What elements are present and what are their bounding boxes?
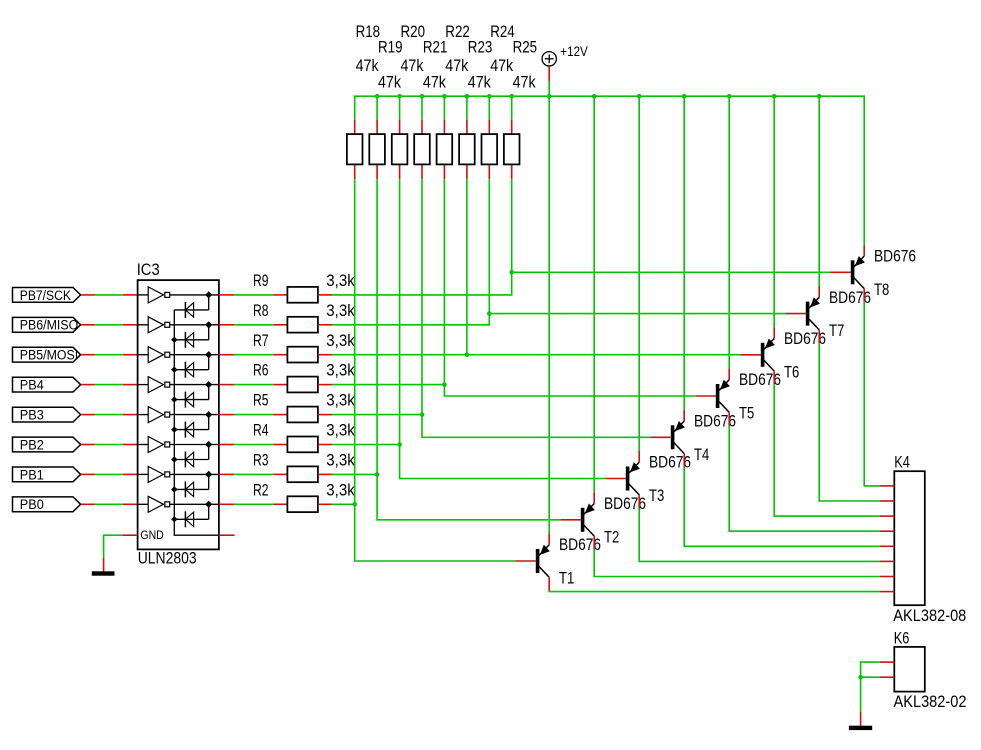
node PB7/SCK input flag [13, 288, 81, 303]
resistor R20 47k [392, 22, 425, 179]
IC3 buffer channel 8 [138, 496, 219, 512]
IC3 diode 8 [174, 504, 208, 527]
svg-text:K6: K6 [894, 628, 910, 647]
svg-text:47k: 47k [445, 56, 468, 75]
IC3 buffer channel 2 [138, 317, 219, 333]
IC3 GND pin [122, 528, 164, 542]
svg-text:PB0: PB0 [20, 497, 44, 512]
svg-text:PB1: PB1 [20, 467, 44, 482]
wire T7 collector to K4 pin 2 [819, 343, 880, 501]
wire PB4 to IC3 pin [81, 384, 138, 386]
svg-text:R21: R21 [423, 37, 448, 56]
svg-text:R24: R24 [490, 22, 515, 41]
svg-text:47k: 47k [378, 72, 401, 91]
wire IC3 output row R3 [219, 473, 273, 475]
wire base net channel T1 [332, 179, 516, 561]
wire base net channel T4 [332, 179, 651, 437]
transistor T3 BD676 [606, 451, 691, 508]
svg-text:3,3k: 3,3k [326, 331, 355, 350]
wire T2 collector to K4 pin 7 [594, 549, 880, 576]
transistor T5 BD676 [696, 368, 781, 425]
node PB1 input flag [13, 467, 81, 482]
svg-text:47k: 47k [356, 56, 379, 75]
wire IC3 output row R5 [219, 414, 273, 416]
IC3 COM pin stub [219, 534, 235, 536]
svg-text:3,3k: 3,3k [326, 480, 355, 499]
svg-text:47k: 47k [490, 56, 513, 75]
wire base net channel T3 [332, 179, 606, 478]
transistor T4 BD676 [651, 410, 736, 467]
transistor T7 BD676 [786, 286, 871, 343]
wire PB5/MOSI to IC3 pin [81, 354, 138, 356]
resistor R25 47k [504, 37, 537, 179]
resistor R24 47k [482, 22, 515, 179]
svg-text:AKL382-02: AKL382-02 [894, 692, 967, 711]
wire base net channel T5 [332, 179, 696, 396]
svg-text:T6: T6 [784, 362, 799, 381]
node PB0 input flag [13, 497, 81, 512]
svg-text:T5: T5 [739, 404, 754, 423]
IC3 diode 5 [174, 415, 208, 438]
svg-text:R18: R18 [356, 22, 381, 41]
svg-text:R6: R6 [253, 361, 269, 380]
ground (K6) [849, 726, 872, 730]
ground (IC3 GND) [92, 571, 115, 575]
svg-text:AKL382-08: AKL382-08 [893, 606, 966, 625]
IC3 diode 2 [174, 325, 208, 348]
svg-text:PB5/MOSI: PB5/MOSI [20, 348, 78, 363]
svg-text:3,3k: 3,3k [326, 361, 355, 380]
svg-text:R5: R5 [253, 391, 269, 410]
svg-text:IC3: IC3 [137, 260, 160, 279]
wire base net channel T6 [332, 179, 741, 357]
wire IC3 output row R8 [219, 324, 273, 326]
connector K4 AKL382-08 [880, 453, 966, 625]
svg-text:ULN2803: ULN2803 [138, 549, 197, 568]
resistor R9 3,3k [253, 271, 355, 303]
svg-text:T4: T4 [694, 445, 709, 464]
wire base net channel T2 [332, 179, 561, 520]
resistor R19 47k [369, 37, 402, 179]
IC3 diode 3 [174, 355, 208, 378]
wire K6 ground net [858, 662, 880, 726]
wire GND net [104, 535, 123, 571]
wire T3 collector to K4 pin 6 [639, 508, 880, 561]
svg-text:R25: R25 [513, 37, 538, 56]
IC IC3 ULN2803 box [137, 260, 219, 567]
svg-text:R7: R7 [253, 331, 269, 350]
wire PB7/SCK to IC3 pin [81, 294, 138, 296]
wire T1 collector to K4 pin 8 [549, 591, 880, 592]
IC3 diode 6 [174, 445, 208, 468]
svg-text:T3: T3 [649, 486, 664, 505]
node PB4 input flag [13, 377, 81, 392]
resistor R5 3,3k [253, 391, 355, 423]
IC3 buffer channel 5 [138, 407, 219, 423]
wire base net channel T7 [332, 179, 786, 325]
node PB2 input flag [13, 437, 81, 452]
wire PB2 to IC3 pin [81, 444, 138, 446]
transistor T6 BD676 [741, 327, 826, 384]
IC3 diode common rail [171, 310, 219, 535]
resistor R2 3,3k [253, 480, 355, 512]
svg-text:R22: R22 [445, 22, 470, 41]
svg-text:3,3k: 3,3k [326, 271, 355, 290]
svg-text:3,3k: 3,3k [326, 451, 355, 470]
IC3 diode 7 [174, 474, 208, 497]
transistor T1 BD676 [516, 533, 601, 590]
svg-text:PB4: PB4 [20, 378, 44, 393]
svg-text:3,3k: 3,3k [326, 391, 355, 410]
wire T4 collector to K4 pin 5 [684, 467, 880, 547]
svg-text:T7: T7 [829, 321, 844, 340]
wire PB1 to IC3 pin [81, 473, 138, 475]
IC3 buffer channel 1 [138, 287, 219, 303]
svg-text:PB2: PB2 [20, 437, 44, 452]
resistor R21 47k [414, 37, 447, 179]
wire IC3 output row R6 [219, 384, 273, 386]
node PB3 input flag [13, 407, 81, 422]
resistor R8 3,3k [253, 301, 355, 333]
supply +12V [542, 44, 588, 81]
wire T5 collector to K4 pin 4 [729, 426, 880, 532]
wire PB0 to IC3 pin [81, 503, 138, 505]
wire IC3 output row R7 [219, 354, 273, 356]
svg-text:R23: R23 [468, 37, 493, 56]
connector K6 AKL382-02 [880, 628, 967, 711]
svg-text:PB6/MISO: PB6/MISO [20, 318, 78, 333]
IC3 buffer channel 4 [138, 377, 219, 393]
resistor R23 47k [459, 37, 492, 179]
svg-text:R20: R20 [401, 22, 426, 41]
IC3 diode 1 [174, 295, 208, 318]
svg-text:T1: T1 [559, 569, 574, 588]
resistor R7 3,3k [253, 331, 355, 363]
resistor R4 3,3k [253, 421, 355, 453]
svg-text:R3: R3 [253, 451, 269, 470]
IC3 buffer channel 7 [138, 466, 219, 482]
wire base net channel T8 [332, 179, 831, 295]
resistor R3 3,3k [253, 451, 355, 483]
IC3 diode 4 [174, 385, 208, 408]
IC3 buffer channel 3 [138, 347, 219, 363]
svg-text:3,3k: 3,3k [326, 421, 355, 440]
wire IC3 output row R4 [219, 444, 273, 446]
svg-text:3,3k: 3,3k [326, 301, 355, 320]
svg-text:R4: R4 [253, 421, 269, 440]
svg-text:T8: T8 [874, 280, 889, 299]
svg-text:R2: R2 [253, 480, 269, 499]
resistor R6 3,3k [253, 361, 355, 393]
wire IC3 output row R2 [219, 503, 273, 505]
svg-text:R9: R9 [253, 271, 269, 290]
svg-text:PB3: PB3 [20, 408, 44, 423]
wire PB6/MISO to IC3 pin [81, 324, 138, 326]
IC3 buffer channel 6 [138, 437, 219, 453]
svg-text:47k: 47k [513, 72, 536, 91]
node PB6/MISO input flag [13, 317, 81, 332]
svg-text:R8: R8 [253, 301, 269, 320]
svg-text:PB7/SCK: PB7/SCK [20, 288, 71, 303]
wire IC3 output row R9 [219, 294, 273, 296]
svg-text:BD676: BD676 [874, 247, 916, 266]
svg-text:GND: GND [140, 528, 164, 542]
svg-text:R19: R19 [378, 37, 403, 56]
wire +12V bus [355, 81, 865, 533]
svg-text:47k: 47k [423, 72, 446, 91]
transistor T2 BD676 [561, 492, 646, 549]
svg-text:47k: 47k [468, 72, 491, 91]
resistor R22 47k [437, 22, 470, 179]
wire PB3 to IC3 pin [81, 414, 138, 416]
transistor T8 BD676 [831, 245, 916, 302]
node PB5/MOSI input flag [13, 347, 81, 362]
svg-text:T2: T2 [604, 527, 619, 546]
wire T8 collector to K4 pin 1 [864, 302, 880, 486]
wire T6 collector to K4 pin 3 [774, 384, 880, 516]
svg-text:K4: K4 [894, 453, 910, 472]
svg-text:47k: 47k [401, 56, 424, 75]
svg-text:+12V: +12V [560, 44, 588, 59]
resistor R18 47k [347, 22, 380, 179]
